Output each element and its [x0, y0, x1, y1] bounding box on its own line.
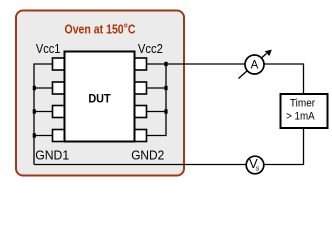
junction dot left pin 3: [33, 109, 36, 113]
ammeter A1 adjustment arrow: [239, 54, 267, 79]
DUT pin 4 right: [135, 130, 147, 142]
ammeter A1 arrowhead: [265, 50, 272, 56]
junction dot left pin 2: [33, 86, 36, 90]
junction dot right pin 3: [164, 109, 167, 113]
timer box: [281, 94, 328, 128]
svg-text:Vcc2: Vcc2: [138, 41, 163, 56]
wire: ammeter to right corner and down to timer: [263, 64, 304, 94]
svg-text:Timer: Timer: [290, 98, 316, 110]
DUT IC body: [65, 52, 135, 142]
wire: left pin 2 stub: [34, 87, 53, 89]
svg-text:DUT: DUT: [88, 92, 111, 106]
voltage source Vs body: [246, 156, 264, 174]
DUT pin 2 left: [53, 82, 65, 94]
svg-text:Oven at 150°C: Oven at 150°C: [65, 21, 136, 37]
svg-text:Vcc1: Vcc1: [36, 41, 61, 56]
DUT pin 2 right: [135, 82, 147, 94]
wire: right Vcc rail: [147, 64, 167, 136]
svg-text:GND1: GND1: [35, 148, 69, 163]
wire: timer bottom down to bottom rail: [264, 128, 304, 165]
wire: left Vcc rail: [34, 64, 53, 165]
wire: left pin 4 stub: [34, 135, 53, 137]
DUT pin 1 left: [53, 58, 65, 70]
wire: left pin 3 stub: [34, 111, 53, 113]
wire: right pin 3 stub: [147, 111, 167, 113]
junction dot left pin 4: [33, 133, 36, 137]
wire: right pin 2 stub: [147, 87, 167, 89]
svg-text:A: A: [251, 60, 259, 72]
svg-text:> 1mA: > 1mA: [286, 111, 315, 123]
svg-text:s: s: [256, 165, 260, 172]
wire: top wire pin1R to ammeter: [147, 63, 246, 65]
junction dot right pin 2: [164, 86, 167, 90]
DUT pin 3 right: [135, 106, 147, 118]
svg-text:GND2: GND2: [131, 148, 164, 163]
ammeter A1 body: [245, 55, 264, 74]
wire: bottom return wire Vs to left rail: [34, 164, 247, 166]
junction dot right pin 1: [164, 62, 167, 66]
DUT pin 3 left: [53, 106, 65, 118]
DUT pin 4 left: [53, 130, 65, 142]
oven enclosure box: [16, 11, 184, 176]
DUT pin 1 right: [135, 58, 147, 70]
